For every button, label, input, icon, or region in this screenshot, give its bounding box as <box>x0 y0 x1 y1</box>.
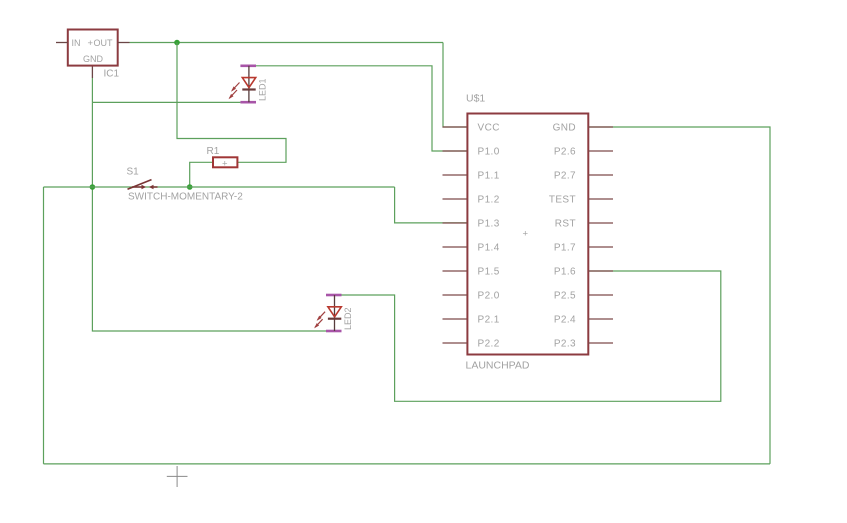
svg-text:SWITCH-MOMENTARY-2: SWITCH-MOMENTARY-2 <box>128 192 243 203</box>
LED2 emission arrow 1 <box>317 312 326 321</box>
left pin labels <box>478 122 500 349</box>
svg-text:RST: RST <box>555 218 576 229</box>
pin stub P1.4 <box>443 246 468 248</box>
LED1 emission arrow 1 <box>231 83 240 92</box>
pin stub TEST <box>588 198 613 200</box>
wire junction 177 down to R1 level <box>177 43 286 163</box>
LED2 anode pad bar <box>326 294 342 297</box>
pin stub P2.0 <box>443 294 468 296</box>
IC U$1 LAUNCHPAD <box>443 93 614 372</box>
LED1 anode pad bar <box>240 65 256 68</box>
wire switch row horizontal <box>44 186 395 188</box>
svg-text:P1.2: P1.2 <box>478 194 500 205</box>
svg-text:P2.3: P2.3 <box>554 338 576 349</box>
wire bottom horizontal <box>44 463 771 465</box>
wire GND vertical to LED2 bottom <box>92 102 326 331</box>
svg-text:+: + <box>523 229 529 240</box>
svg-text:P2.2: P2.2 <box>478 338 500 349</box>
left pin stubs <box>443 127 468 343</box>
pin stub P2.7 <box>588 174 613 176</box>
node junction at OUT net <box>174 40 180 46</box>
pin stub P2.5 <box>588 294 613 296</box>
svg-text:P1.1: P1.1 <box>478 170 500 181</box>
pin stub P1.5 <box>443 270 468 272</box>
svg-text:R1: R1 <box>207 146 220 157</box>
LED2 lead <box>334 295 336 331</box>
svg-text:LED2: LED2 <box>343 307 353 330</box>
svg-text:P1.3: P1.3 <box>478 218 500 229</box>
pin stub P2.1 <box>443 318 468 320</box>
resistor R1 <box>207 146 238 170</box>
wire VCC vertical drop <box>443 43 467 128</box>
pin stub RST <box>588 222 613 224</box>
pin stub IN <box>56 42 68 44</box>
svg-text:P2.7: P2.7 <box>554 170 576 181</box>
LED1 lead <box>248 66 250 102</box>
pin stub P2.6 <box>588 150 613 152</box>
LED2 emission arrow 2 <box>314 319 323 328</box>
voltage regulator IC1 <box>56 30 130 80</box>
pin stub P1.6 <box>588 270 613 272</box>
svg-text:U$1: U$1 <box>466 93 485 105</box>
node junction at R1/switch <box>187 184 193 190</box>
svg-text:S1: S1 <box>127 167 140 178</box>
svg-text:P1.7: P1.7 <box>554 242 576 253</box>
wire LED1 top to P1.0 <box>256 66 467 151</box>
LED2 cathode pad bar <box>326 330 342 333</box>
LED LED2 <box>314 295 353 331</box>
pin stub P1.2 <box>443 198 468 200</box>
svg-text:LED1: LED1 <box>258 78 268 101</box>
switch S1 <box>127 167 244 203</box>
pin stub P1.1 <box>443 174 468 176</box>
svg-text:P2.6: P2.6 <box>554 146 576 157</box>
svg-text:OUT: OUT <box>94 38 114 48</box>
pin stub GND <box>588 126 613 128</box>
pin stub VCC <box>443 126 468 128</box>
LED2 triangle <box>328 307 341 317</box>
right pin stubs <box>588 127 613 343</box>
svg-text:P2.4: P2.4 <box>554 314 576 325</box>
pin stub P1.3 <box>443 222 468 224</box>
S1 left contact arrow <box>132 185 146 190</box>
pin stub IC1 GND <box>91 66 93 78</box>
pin stub P2.3 <box>588 342 613 344</box>
wire IC1 GND down <box>91 78 93 102</box>
svg-text:P1.0: P1.0 <box>478 146 500 157</box>
S1 right contact arrow <box>149 185 158 190</box>
svg-text:+: + <box>222 159 228 170</box>
wire LED2 top to P1.6 <box>342 271 721 401</box>
svg-text:GND: GND <box>83 54 104 64</box>
svg-text:VCC: VCC <box>478 122 500 133</box>
svg-text:P2.1: P2.1 <box>478 314 500 325</box>
pin stub P1.7 <box>588 246 613 248</box>
LED LED1 <box>229 66 268 102</box>
svg-text:P1.4: P1.4 <box>478 242 500 253</box>
LED2 cathode bar <box>328 318 341 320</box>
svg-text:P1.6: P1.6 <box>554 266 576 277</box>
svg-text:TEST: TEST <box>549 194 576 205</box>
wire R1 left lead to switch junction <box>190 162 213 187</box>
wire GND to LED1 bottom <box>92 101 240 103</box>
LED1 cathode pad bar <box>240 101 256 104</box>
svg-text:P2.0: P2.0 <box>478 290 500 301</box>
svg-text:IC1: IC1 <box>104 69 120 80</box>
pin stub P2.2 <box>443 342 468 344</box>
LED1 emission arrow 2 <box>229 90 238 99</box>
pin stub P1.0 <box>443 150 468 152</box>
wire switch row to P1.3 <box>395 187 468 223</box>
right pin labels <box>549 122 576 349</box>
wire right vertical up to GND <box>588 127 770 464</box>
svg-text:LAUNCHPAD: LAUNCHPAD <box>466 360 530 372</box>
LED1 cathode bar <box>242 88 255 90</box>
S1 lever <box>128 180 152 190</box>
pin stub OUT <box>118 42 130 44</box>
wire OUT to VCC horizontal <box>130 42 444 44</box>
LED1 triangle <box>242 78 255 88</box>
sheet origin cross <box>167 466 188 487</box>
pin stub P2.4 <box>588 318 613 320</box>
svg-text:IN: IN <box>72 38 81 48</box>
node junction at switch row <box>90 184 96 190</box>
wire left vertical down <box>43 187 45 464</box>
svg-text:P1.5: P1.5 <box>478 266 500 277</box>
svg-text:P2.5: P2.5 <box>554 290 576 301</box>
svg-text:GND: GND <box>553 122 576 133</box>
